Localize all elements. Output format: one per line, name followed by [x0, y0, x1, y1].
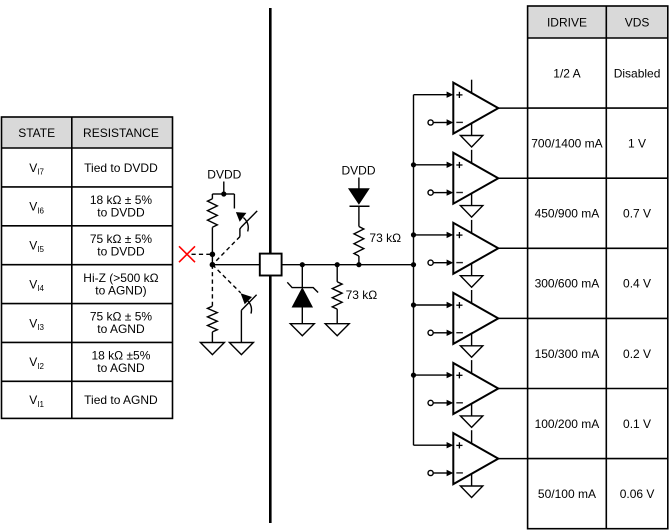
comparator U1 supply stub [471, 80, 473, 93]
op-amp U3 triangle [453, 223, 498, 274]
comparator U4 plus label [456, 304, 462, 306]
resistor pull-up (to DVDD) [208, 199, 218, 228]
svg-text:VI3: VI3 [29, 316, 44, 332]
wire DVDD to node [223, 182, 225, 195]
switch SW2 arrowhead [241, 293, 252, 304]
comparator U3 ground stub [471, 264, 473, 276]
wire SW2 to ground [240, 310, 242, 342]
comparator U2 plus label [456, 164, 462, 166]
comparator U2 supply stub [471, 150, 473, 163]
comparator U4 minus input terminal circle [428, 330, 433, 335]
node junction below DVDD [221, 191, 226, 196]
svg-text:300/600 mA: 300/600 mA [535, 277, 600, 291]
svg-text:450/900 mA: 450/900 mA [535, 207, 600, 221]
svg-text:150/300 mA: 150/300 mA [535, 347, 600, 361]
svg-text:73 kΩ: 73 kΩ [346, 288, 378, 302]
node B junction [210, 262, 216, 268]
svg-text:Tied to DVDD: Tied to DVDD [84, 161, 158, 175]
comparator U1 minus label [456, 121, 463, 123]
zener diode D2 body [292, 288, 312, 307]
ground (pull-down resistor) [200, 343, 224, 355]
op-amp U6 triangle [453, 433, 498, 484]
comparator U6 supply stub [471, 430, 473, 443]
svg-text:100/200 mA: 100/200 mA [535, 417, 600, 431]
comparator U4 supply stub [471, 290, 473, 303]
wire node B to pin box [212, 264, 259, 266]
comparator U2 plus input wire [414, 164, 448, 166]
op-amp U2 triangle [453, 153, 498, 204]
wire DVDD to diode D1 [358, 178, 360, 190]
svg-text:Disabled: Disabled [614, 66, 661, 80]
wire pin to comparator bus [282, 264, 414, 266]
svg-text:RESISTANCE: RESISTANCE [83, 126, 159, 140]
comparator U6 minus input terminal circle [428, 470, 433, 475]
comparator U1 minus input wire [433, 122, 447, 124]
comparator U3 output wire [498, 247, 527, 249]
svg-text:VI6: VI6 [29, 200, 44, 216]
wire resistor to ground [211, 332, 213, 343]
resistor pull-down (to AGND) [208, 306, 218, 332]
svg-text:50/100 mA: 50/100 mA [538, 487, 596, 501]
junction bus to comparator 4 [411, 302, 416, 307]
svg-text:0.2 V: 0.2 V [623, 347, 651, 361]
comparator U1 output wire [498, 107, 527, 109]
comparator U3 minus input terminal circle [428, 260, 433, 265]
op-amp U4 triangle [453, 293, 498, 344]
svg-text:VI5: VI5 [29, 239, 44, 255]
svg-text:to DVDD: to DVDD [97, 244, 145, 258]
svg-text:0.1 V: 0.1 V [623, 417, 651, 431]
ground (zener) [290, 324, 314, 336]
svg-text:0.7 V: 0.7 V [623, 207, 651, 221]
comparator U5 plus input arrowhead [447, 372, 454, 378]
junction 73k pullup branch [356, 262, 361, 267]
comparator U3 plus input arrowhead [447, 232, 454, 238]
ground (comparator U2) [460, 206, 482, 218]
comparator U3 minus input arrowhead [447, 260, 454, 266]
wire comparator reference bus [413, 95, 415, 446]
comparator U6 output wire [498, 458, 527, 460]
comparator U1 plus label [456, 94, 462, 96]
comparator U5 ground stub [471, 404, 473, 416]
resistor 73k (to AGND) [332, 282, 342, 309]
junction bus to comparator 3 [411, 232, 416, 237]
comparator U6 minus label [456, 472, 463, 474]
junction bus to comparator 2 [411, 162, 416, 167]
ground (comparator U5) [460, 416, 482, 428]
switch SW2 motion arc [248, 301, 252, 314]
op-amp U1 triangle [453, 83, 498, 134]
svg-text:1 V: 1 V [628, 136, 646, 150]
comparator U5 minus input wire [433, 402, 447, 404]
junction 73k pulldown branch [335, 262, 340, 267]
junction bus to comparator 5 [411, 373, 416, 378]
switch SW1 blade step [240, 227, 241, 237]
pin box (device terminal) [260, 254, 282, 276]
comparator U1 ground stub [471, 123, 473, 135]
comparator U2 minus input terminal circle [428, 190, 433, 195]
comparator U2 ground stub [471, 194, 473, 206]
wire node A to node B [211, 254, 213, 264]
svg-text:700/1400 mA: 700/1400 mA [531, 136, 602, 150]
comparator U6 plus label [456, 444, 462, 446]
comparator U4 ground stub [471, 334, 473, 346]
svg-text:VDS: VDS [625, 15, 650, 29]
wire zener anode to ground [301, 307, 303, 324]
ground (comparator U3) [460, 276, 482, 288]
svg-text:IDRIVE: IDRIVE [547, 15, 587, 29]
svg-text:VI2: VI2 [29, 355, 44, 371]
comparator U6 ground stub [471, 474, 473, 486]
comparator U1 plus input arrowhead [447, 92, 454, 98]
comparator U5 minus input terminal circle [428, 400, 433, 405]
comparator U3 plus label [456, 234, 462, 236]
svg-text:DVDD: DVDD [341, 164, 375, 178]
table: STATE/RESISTANCE grid [2, 117, 173, 418]
ground (comparator U6) [460, 486, 482, 498]
wire diode to 73k pullup [358, 206, 360, 226]
comparator U5 minus input arrowhead [447, 400, 454, 406]
wire to zener cathode [301, 265, 303, 288]
comparator U3 supply stub [471, 220, 473, 233]
wire: device boundary vertical line [269, 8, 272, 523]
dashed wire node B to pull-down resistor [211, 265, 213, 307]
ground (comparator U4) [460, 346, 482, 358]
svg-text:VI1: VI1 [29, 393, 44, 409]
comparator U1 minus input arrowhead [447, 119, 454, 125]
comparator U4 output wire [498, 317, 527, 319]
svg-text:73 kΩ: 73 kΩ [369, 231, 401, 245]
ground (switch SW2) [229, 343, 253, 355]
comparator U2 minus label [456, 192, 463, 194]
junction zener branch [300, 262, 305, 267]
switch SW1 blade [241, 211, 257, 227]
comparator U6 minus input arrowhead [447, 470, 454, 476]
svg-text:STATE: STATE [18, 126, 55, 140]
wire 73k pullup to main wire [358, 256, 360, 265]
switch SW1 arrowhead [236, 212, 247, 222]
svg-text:1/2 A: 1/2 A [553, 66, 580, 80]
comparator U3 minus label [456, 262, 463, 264]
ground (comparator U1) [460, 136, 482, 148]
comparator U3 plus input wire [414, 234, 448, 236]
svg-text:to AGND: to AGND [97, 361, 145, 375]
wire to 73k pulldown resistor [336, 265, 338, 282]
wire DVDD branch to switch SW1 [224, 193, 235, 195]
comparator U3 minus input wire [433, 262, 447, 264]
wire 73k to ground [336, 309, 338, 324]
table: IDRIVE/VDS header background [528, 6, 668, 38]
svg-text:to AGND): to AGND) [95, 283, 146, 297]
svg-text:Tied to AGND: Tied to AGND [84, 393, 158, 407]
svg-text:to DVDD: to DVDD [97, 206, 145, 220]
comparator U1 minus input terminal circle [428, 120, 433, 125]
diode D1 body [349, 189, 369, 204]
svg-text:to AGND: to AGND [97, 322, 145, 336]
switch SW1 motion arc [243, 218, 248, 232]
comparator U6 plus input wire [414, 444, 448, 446]
comparator U1 plus input wire [414, 94, 448, 96]
comparator U2 minus input arrowhead [447, 189, 454, 195]
op-amp U5 triangle [453, 363, 498, 414]
comparator U5 minus label [456, 402, 463, 404]
resistor 73k (to DVDD) [354, 227, 364, 257]
diode D1 cathode bar [350, 205, 370, 207]
zener diode D2 cathode bar [287, 282, 318, 292]
dashed wire X to node A [192, 253, 213, 255]
comparator U2 output wire [498, 177, 527, 179]
wire to pull-up resistor [212, 193, 223, 195]
ground (73k pulldown) [325, 324, 349, 336]
dashed wire SW1 to node B [212, 237, 240, 265]
comparator U4 minus input arrowhead [447, 330, 454, 336]
table: IDRIVE/VDS grid [528, 6, 668, 529]
dashed wire node B to switch SW2 [212, 265, 240, 293]
switch SW2 blade [241, 295, 256, 310]
svg-text:0.4 V: 0.4 V [623, 277, 651, 291]
node A junction [210, 252, 216, 258]
comparator U5 plus input wire [414, 374, 448, 376]
svg-text:DVDD: DVDD [207, 168, 241, 182]
wire resistor to node A [211, 227, 213, 254]
comparator U5 supply stub [471, 360, 473, 373]
comparator U6 minus input wire [433, 472, 447, 474]
comparator U4 plus input arrowhead [447, 302, 454, 308]
comparator U5 plus label [456, 374, 462, 376]
red X marker (no-connect) [179, 246, 195, 262]
comparator U2 minus input wire [433, 192, 447, 194]
comparator U5 output wire [498, 388, 527, 390]
table: STATE/RESISTANCE header background [2, 117, 173, 148]
comparator U4 minus label [456, 332, 463, 334]
comparator U6 plus input arrowhead [447, 442, 454, 448]
svg-text:VI4: VI4 [29, 277, 44, 293]
comparator U2 plus input arrowhead [447, 162, 454, 168]
svg-text:0.06 V: 0.06 V [620, 487, 655, 501]
comparator U4 minus input wire [433, 332, 447, 334]
svg-text:VI7: VI7 [29, 161, 44, 177]
comparator U4 plus input wire [414, 304, 448, 306]
junction bus [411, 262, 416, 267]
